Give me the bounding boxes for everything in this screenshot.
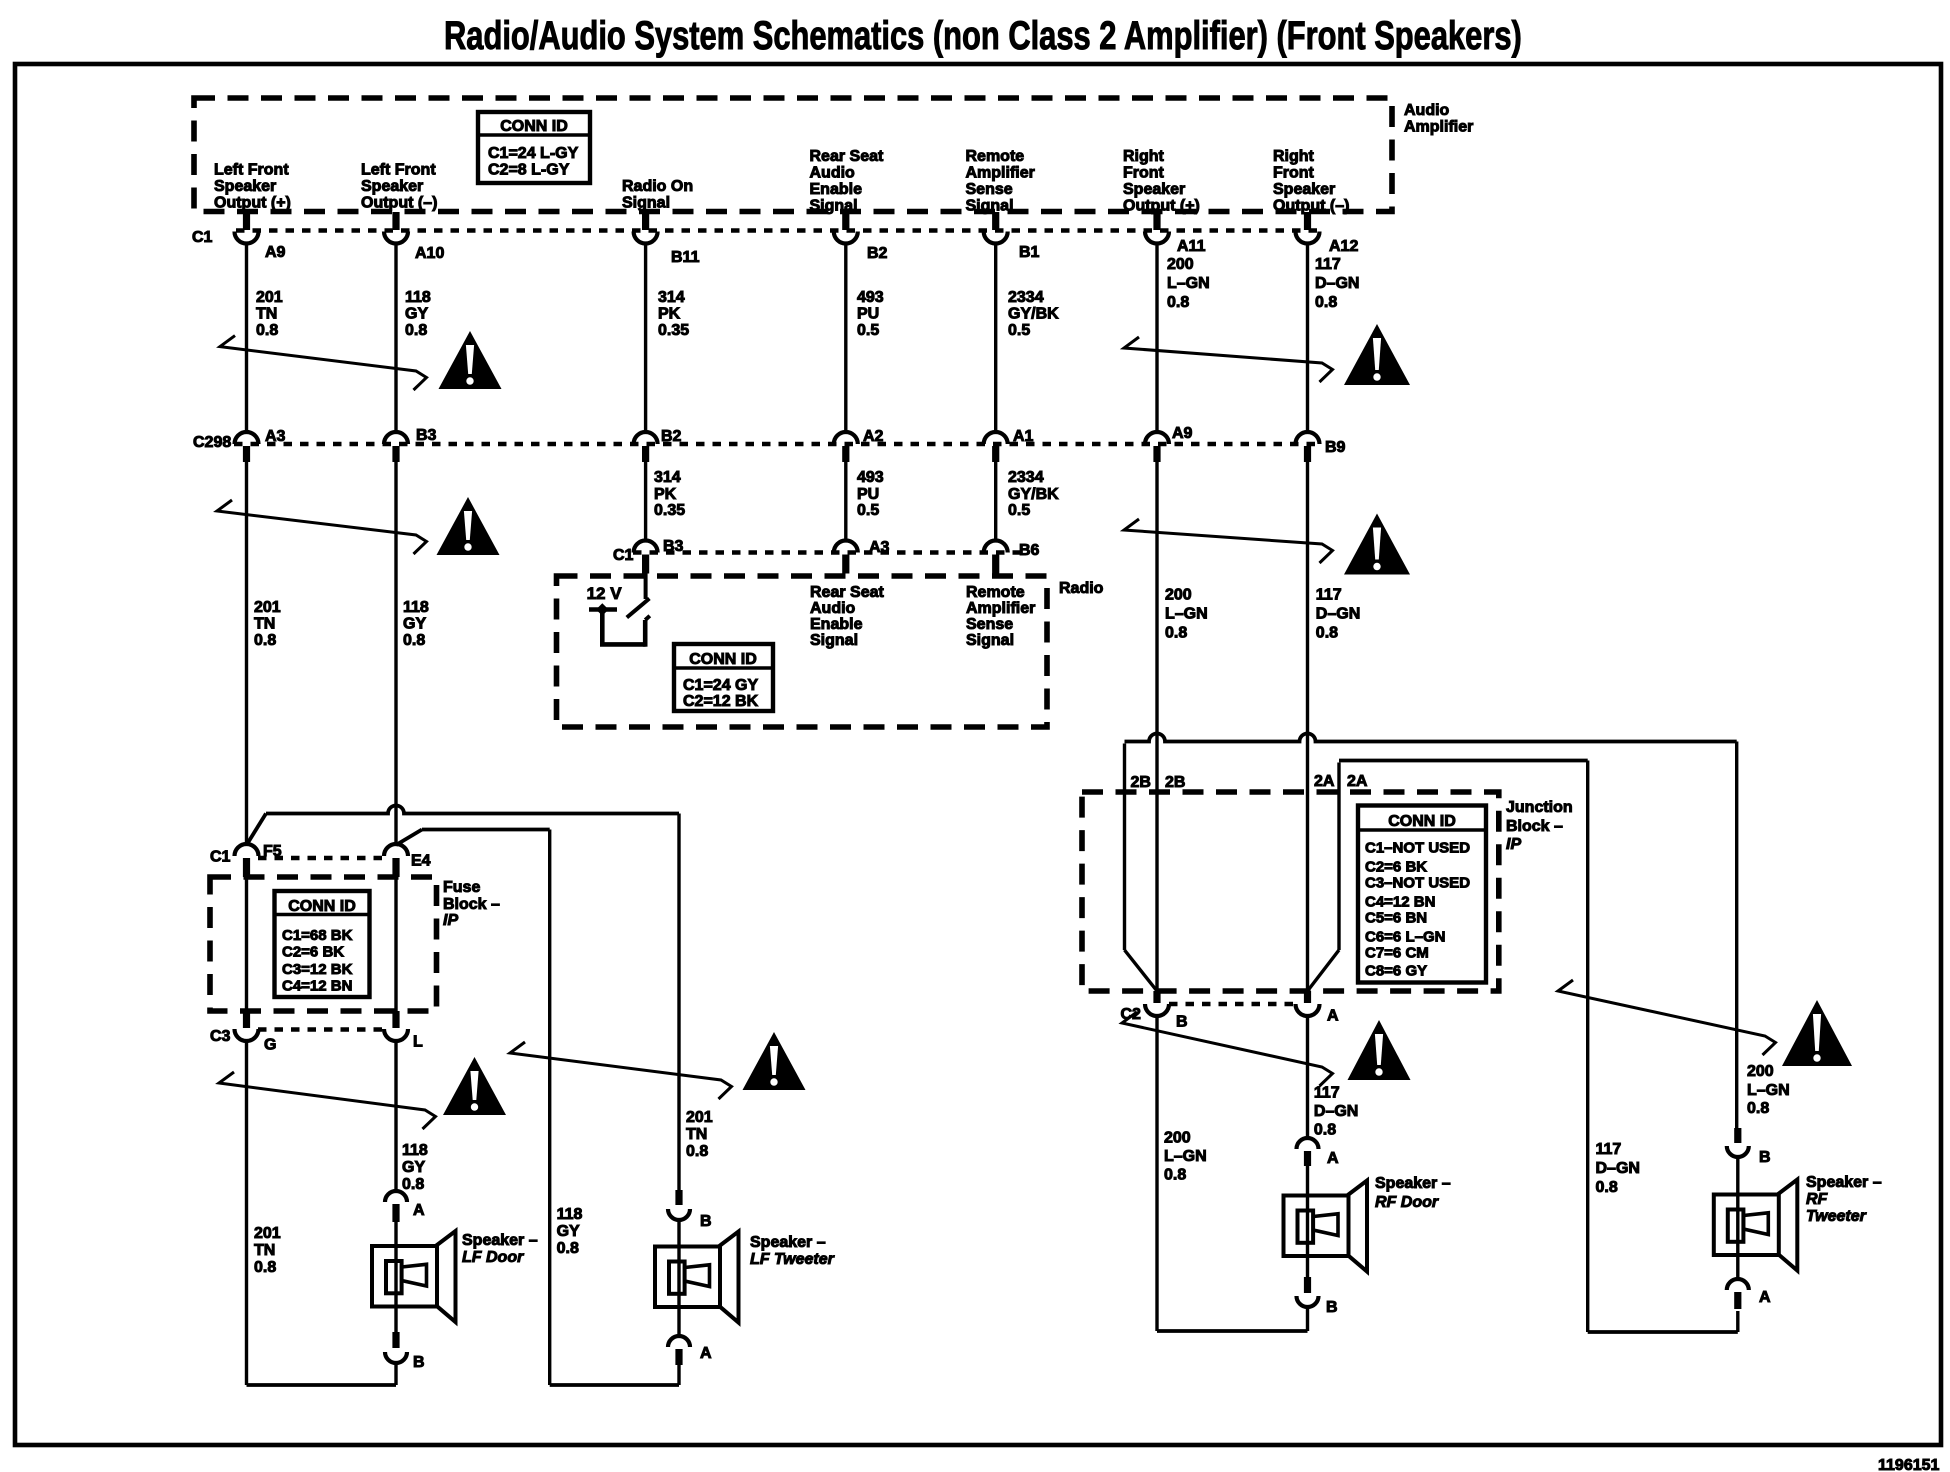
svg-text:0.35: 0.35 <box>654 502 685 519</box>
warning triangle note (far right) <box>1782 1000 1852 1066</box>
svg-text:Right: Right <box>1123 148 1165 165</box>
wire label 493 PU 0.5 (mid) <box>857 469 884 519</box>
speaker terminal B (RF tweeter) <box>1727 1128 1771 1166</box>
wire out of LF tweeter <box>677 1307 680 1336</box>
twisted-pair arrow (lower mid) <box>510 1042 732 1099</box>
svg-text:A1: A1 <box>1013 428 1034 445</box>
svg-text:Right: Right <box>1273 148 1315 165</box>
svg-text:2334: 2334 <box>1008 289 1044 306</box>
speaker terminal B (RF door) <box>1297 1277 1338 1316</box>
connector C298 pin A3 <box>235 428 286 462</box>
wire label 118 GY 0.8 (upper) <box>405 289 431 339</box>
svg-text:Audio: Audio <box>810 600 856 617</box>
speaker terminal A (LF tweeter) <box>668 1336 712 1365</box>
wire 200 L-GN segment A9-junction <box>1155 462 1158 991</box>
connector C298 label <box>193 434 231 451</box>
wire into RF door speaker <box>1306 1166 1309 1196</box>
svg-text:GY/BK: GY/BK <box>1008 486 1059 503</box>
fuse block CONN ID table <box>275 891 370 997</box>
svg-text:Audio: Audio <box>1404 102 1450 119</box>
junction pin label 2A (left) <box>1314 773 1335 790</box>
svg-text:CONN ID: CONN ID <box>689 651 757 668</box>
svg-text:C1=68 BK: C1=68 BK <box>282 927 353 944</box>
svg-text:C1: C1 <box>210 849 231 866</box>
svg-text:B2: B2 <box>661 428 682 445</box>
svg-text:Speaker –: Speaker – <box>1806 1174 1882 1191</box>
wire label 314 PK 0.35 (upper) <box>658 289 689 339</box>
junction connector pin B <box>1145 991 1188 1031</box>
wire LF door B to return <box>394 1363 397 1385</box>
svg-text:Amplifier: Amplifier <box>966 165 1035 182</box>
amp pin label Left Front Speaker Output (-) <box>361 162 437 212</box>
svg-text:TN: TN <box>254 1242 275 1259</box>
wire 200 L-GN segment B-RF door <box>1157 1016 1308 1331</box>
svg-text:0.8: 0.8 <box>254 632 276 649</box>
connector row C1 dotted tie line <box>236 228 1318 233</box>
speaker label LF Door <box>462 1232 538 1266</box>
warning triangle note (junction) <box>1348 1020 1411 1080</box>
twisted-pair arrow (lower left) <box>219 1072 436 1129</box>
svg-text:Block –: Block – <box>1506 818 1563 835</box>
twisted-pair arrow (left upper) <box>220 336 427 390</box>
svg-text:314: 314 <box>654 469 681 486</box>
junction connector pin A <box>1296 991 1340 1025</box>
svg-text:A: A <box>1327 1008 1339 1025</box>
svg-text:GY: GY <box>557 1223 580 1240</box>
svg-text:117: 117 <box>1315 256 1341 273</box>
svg-text:C5=6 BN: C5=6 BN <box>1365 910 1427 927</box>
svg-text:0.5: 0.5 <box>1008 502 1030 519</box>
svg-text:L–GN: L–GN <box>1164 1148 1207 1165</box>
svg-text:2B: 2B <box>1131 774 1151 791</box>
radio CONN ID table <box>674 644 773 711</box>
svg-text:C8=6 GY: C8=6 GY <box>1365 963 1427 980</box>
svg-text:A10: A10 <box>415 245 444 262</box>
svg-text:PU: PU <box>857 486 879 503</box>
svg-text:Audio: Audio <box>810 165 856 182</box>
svg-text:TN: TN <box>686 1126 707 1143</box>
wire label 117 D-GN 0.8 (mid) <box>1316 587 1360 642</box>
svg-text:IP: IP <box>443 912 458 929</box>
svg-text:B: B <box>1759 1149 1771 1166</box>
amp pin label Left Front Speaker Output (+) <box>214 162 291 212</box>
amp connector pin A11 <box>1145 212 1206 255</box>
wire label 200 L-GN 0.8 (upper) <box>1167 256 1210 311</box>
radio-on switch S1 <box>600 573 650 647</box>
svg-text:0.5: 0.5 <box>1008 322 1030 339</box>
svg-text:G: G <box>264 1037 276 1054</box>
speaker SPKR3 RF Door <box>1284 1181 1368 1272</box>
svg-text:LF Door: LF Door <box>462 1249 524 1266</box>
svg-text:0.8: 0.8 <box>1167 294 1189 311</box>
svg-text:200: 200 <box>1165 587 1192 604</box>
svg-text:C1: C1 <box>192 229 213 246</box>
junction block feed 2A branch <box>1308 761 1738 1333</box>
connector C298 pin B2 <box>634 428 682 462</box>
svg-text:Sense: Sense <box>966 616 1013 633</box>
svg-text:0.8: 0.8 <box>1747 1100 1769 1117</box>
warning triangle note (lower mid) <box>743 1032 806 1090</box>
wire label 493 PU 0.5 (upper) <box>857 289 884 339</box>
svg-text:Left Front: Left Front <box>361 162 436 179</box>
wire into LF door speaker <box>394 1222 397 1246</box>
connector C298 pin A2 <box>834 428 884 462</box>
radio connector row dotted tie line <box>633 550 1020 555</box>
speaker terminal A (RF tweeter) <box>1727 1279 1771 1309</box>
wire 118 GY segment L-LF door A <box>394 1041 397 1191</box>
speaker terminal A (LF door) <box>385 1191 425 1222</box>
wire out of LF door speaker <box>394 1307 397 1333</box>
warning triangle note (lower left) <box>443 1057 506 1115</box>
svg-text:Output (–): Output (–) <box>1273 198 1349 215</box>
wire RF door B to return <box>1306 1307 1309 1331</box>
connector row C3 dotted tie line <box>258 1027 383 1032</box>
svg-text:117: 117 <box>1316 587 1342 604</box>
speaker terminal B (LF tweeter) <box>668 1190 712 1230</box>
svg-text:CONN ID: CONN ID <box>1388 813 1456 830</box>
wire label 201 TN 0.8 (lower left) <box>254 1225 281 1276</box>
speaker label RF Tweeter <box>1806 1174 1882 1225</box>
svg-text:0.8: 0.8 <box>1316 625 1338 642</box>
wire label 118 GY 0.8 (LF tweeter) <box>557 1206 583 1257</box>
wire 314 PK segment B11-B2 <box>644 244 647 433</box>
svg-text:Tweeter: Tweeter <box>1806 1208 1867 1225</box>
svg-text:B: B <box>700 1213 712 1230</box>
svg-text:PK: PK <box>654 486 677 503</box>
radio signal label Rear Seat Audio Enable Signal <box>810 584 884 649</box>
wire 314 PK segment B2-B3 <box>644 462 647 542</box>
amp connector pin A12 <box>1296 212 1359 255</box>
audio amplifier name label <box>1404 102 1473 136</box>
connector C3 pin G <box>235 1011 277 1054</box>
svg-text:LF Tweeter: LF Tweeter <box>750 1251 835 1268</box>
wire 117 D-GN segment B9-junction <box>1306 462 1309 991</box>
connector C3 pin L <box>384 1011 423 1051</box>
svg-text:118: 118 <box>403 599 429 616</box>
svg-text:D–GN: D–GN <box>1315 275 1359 292</box>
amp pin label Right Front Speaker Output (+) <box>1123 148 1200 215</box>
twisted-pair arrow (far right) <box>1558 980 1776 1055</box>
svg-text:Signal: Signal <box>622 195 670 212</box>
svg-text:Junction: Junction <box>1506 799 1573 816</box>
wire label 118 GY 0.8 (lower left) <box>402 1142 428 1193</box>
svg-text:PU: PU <box>857 306 879 323</box>
svg-text:200: 200 <box>1747 1063 1774 1080</box>
svg-text:C3: C3 <box>210 1028 231 1045</box>
svg-text:0.35: 0.35 <box>658 322 689 339</box>
wire 2334 GY/BK segment A1-B6 <box>994 462 997 542</box>
svg-text:117: 117 <box>1596 1141 1622 1158</box>
fuse block wire stub F5 inside <box>245 877 248 1011</box>
speaker terminal B (LF door) <box>385 1332 425 1371</box>
svg-text:C4=12 BN: C4=12 BN <box>1365 894 1435 911</box>
svg-text:0.8: 0.8 <box>557 1240 579 1257</box>
radio signal label Remote Amplifier Sense Signal <box>966 584 1035 649</box>
radio connector pin B6 <box>984 541 1040 574</box>
svg-text:201: 201 <box>256 289 283 306</box>
wire 117 D-GN segment A-RF door A <box>1306 1016 1309 1138</box>
svg-text:Enable: Enable <box>810 181 863 198</box>
wire 201 TN segment G-LF door <box>247 1041 397 1385</box>
svg-text:B2: B2 <box>867 245 888 262</box>
fuse block name label <box>443 879 500 929</box>
svg-text:2334: 2334 <box>1008 469 1044 486</box>
svg-text:Output (+): Output (+) <box>1123 198 1200 215</box>
wire 118 GY segment B3-E4 <box>394 462 397 844</box>
svg-text:A: A <box>413 1202 425 1219</box>
svg-text:0.8: 0.8 <box>1596 1179 1618 1196</box>
svg-text:GY/BK: GY/BK <box>1008 306 1059 323</box>
svg-text:PK: PK <box>658 306 681 323</box>
speaker SPKR4 RF Tweeter <box>1714 1180 1798 1271</box>
junction block CONN ID table <box>1358 806 1486 983</box>
svg-text:0.8: 0.8 <box>256 322 278 339</box>
wire branch F5 to LF tweeter (201 TN) <box>247 806 680 1191</box>
audio amplifier U1 dashed outline <box>194 98 1392 212</box>
svg-text:A2: A2 <box>863 428 884 445</box>
wire 2334 GY/BK segment B1-A1 <box>994 244 997 433</box>
wire label 2334 GY/BK 0.5 (upper) <box>1008 289 1059 339</box>
svg-text:C3=12 BK: C3=12 BK <box>282 961 353 978</box>
svg-text:Block –: Block – <box>443 896 500 913</box>
wire 117 D-GN segment A12-B9 <box>1306 244 1309 433</box>
speaker terminal A (RF door) <box>1297 1138 1340 1167</box>
svg-text:C4=12 BN: C4=12 BN <box>282 978 352 995</box>
warning triangle note (left mid) <box>437 497 500 555</box>
svg-text:12 V: 12 V <box>587 584 623 603</box>
amp connector pin B1 <box>984 212 1040 261</box>
svg-text:1196151: 1196151 <box>1878 1457 1940 1472</box>
connector row C298 dotted tie line <box>234 442 1318 447</box>
radio name label <box>1059 580 1104 597</box>
amplifier CONN ID table <box>478 112 590 183</box>
svg-text:Front: Front <box>1273 165 1315 182</box>
title <box>444 13 1522 58</box>
fuse block connector C1 label <box>210 849 231 866</box>
svg-text:0.8: 0.8 <box>1164 1167 1186 1184</box>
svg-text:Output (+): Output (+) <box>214 195 291 212</box>
radio dashed outline <box>557 576 1048 727</box>
svg-text:B1: B1 <box>1019 244 1040 261</box>
svg-text:C298: C298 <box>193 434 231 451</box>
wire label 201 TN 0.8 (mid) <box>254 599 281 649</box>
svg-text:0.8: 0.8 <box>686 1143 708 1160</box>
speaker label RF Door <box>1375 1175 1451 1211</box>
svg-text:A12: A12 <box>1329 238 1358 255</box>
twisted-pair arrow (junction) <box>1122 1012 1333 1086</box>
svg-text:Amplifier: Amplifier <box>966 600 1035 617</box>
wire label 117 D-GN 0.8 (RF door) <box>1314 1085 1358 1139</box>
svg-text:201: 201 <box>254 1225 281 1242</box>
connector C3 label <box>210 1028 231 1045</box>
amp connector pin A10 <box>384 212 444 262</box>
wire 118 GY segment A10-B3 <box>394 244 397 433</box>
svg-text:Radio On: Radio On <box>622 178 693 195</box>
svg-text:B11: B11 <box>671 249 700 266</box>
svg-text:0.8: 0.8 <box>1314 1122 1336 1139</box>
junction connector C2 label <box>1121 1006 1142 1023</box>
amp pin label Remote Amplifier Sense Signal <box>966 148 1035 215</box>
svg-text:493: 493 <box>857 469 884 486</box>
svg-text:0.8: 0.8 <box>402 1176 424 1193</box>
svg-text:0.8: 0.8 <box>405 322 427 339</box>
svg-text:0.5: 0.5 <box>857 502 879 519</box>
svg-text:TN: TN <box>254 616 275 633</box>
svg-text:Output (–): Output (–) <box>361 195 437 212</box>
svg-text:IP: IP <box>1506 836 1521 853</box>
wire 201 TN segment A3-F5 <box>245 462 248 844</box>
svg-text:Left Front: Left Front <box>214 162 289 179</box>
svg-text:GY: GY <box>403 616 426 633</box>
svg-text:Radio/Audio System Schematics: Radio/Audio System Schematics (non Class… <box>444 13 1522 58</box>
svg-text:D–GN: D–GN <box>1596 1160 1640 1177</box>
svg-text:B3: B3 <box>416 427 437 444</box>
connector C298 pin A1 <box>984 428 1034 462</box>
svg-text:Front: Front <box>1123 165 1165 182</box>
svg-text:Rear Seat: Rear Seat <box>810 584 884 601</box>
wire label 200 L-GN 0.8 (RF door) <box>1164 1130 1207 1184</box>
wire 200 L-GN segment A11-A9 <box>1155 244 1158 433</box>
svg-text:201: 201 <box>686 1109 713 1126</box>
svg-text:Speaker –: Speaker – <box>1375 1175 1451 1192</box>
junction pin label 2A (right) <box>1347 773 1368 790</box>
svg-text:B9: B9 <box>1325 439 1346 456</box>
twisted-pair arrow (left mid) <box>217 500 427 554</box>
speaker label LF Tweeter <box>750 1234 835 1268</box>
svg-text:0.8: 0.8 <box>254 1259 276 1276</box>
amp pin label Right Front Speaker Output (-) <box>1273 148 1349 215</box>
wire into LF tweeter <box>677 1220 680 1247</box>
junction block name label <box>1506 799 1573 853</box>
svg-text:Speaker –: Speaker – <box>462 1232 538 1249</box>
svg-text:2A: 2A <box>1347 773 1368 790</box>
amp connector pin B11 <box>634 212 700 266</box>
wire label 117 D-GN 0.8 (RF tweeter) <box>1596 1141 1640 1196</box>
svg-text:Rear Seat: Rear Seat <box>810 148 884 165</box>
svg-text:CONN ID: CONN ID <box>288 898 356 915</box>
svg-text:Remote: Remote <box>966 584 1025 601</box>
svg-text:Speaker: Speaker <box>1273 181 1335 198</box>
svg-text:TN: TN <box>256 306 277 323</box>
twisted-pair arrow (right mid) <box>1124 519 1333 563</box>
svg-text:A9: A9 <box>265 244 286 261</box>
svg-text:Fuse: Fuse <box>443 879 480 896</box>
svg-text:C2=8 L-GY: C2=8 L-GY <box>488 162 570 179</box>
fuse block connector pin F5 <box>235 843 282 877</box>
amp connector pin B2 <box>834 212 888 262</box>
svg-text:C1: C1 <box>613 547 634 564</box>
svg-text:Signal: Signal <box>966 198 1014 215</box>
svg-text:C1–NOT USED: C1–NOT USED <box>1365 840 1470 857</box>
wire out of RF door speaker <box>1306 1256 1309 1277</box>
wire label 2334 GY/BK 0.5 (mid) <box>1008 469 1059 519</box>
svg-text:200: 200 <box>1167 256 1194 273</box>
svg-text:C2=6 BK: C2=6 BK <box>1365 859 1427 876</box>
svg-text:B3: B3 <box>663 538 684 555</box>
svg-text:B6: B6 <box>1019 542 1040 559</box>
wire branch E4 to LF tweeter return (118 GY) <box>396 830 679 1386</box>
radio connector C1 label <box>613 547 634 564</box>
svg-text:Radio: Radio <box>1059 580 1104 597</box>
fuse block connector row dotted tie line <box>258 856 386 861</box>
wire 201 TN segment A9-A3 <box>245 244 248 433</box>
svg-text:117: 117 <box>1314 1085 1340 1102</box>
wire label 200 L-GN 0.8 (mid) <box>1165 587 1208 642</box>
svg-text:C2=6 BK: C2=6 BK <box>282 944 344 961</box>
svg-text:B: B <box>1176 1014 1188 1031</box>
svg-text:L–GN: L–GN <box>1165 606 1208 623</box>
svg-text:118: 118 <box>557 1206 583 1223</box>
amp connector pin A9 <box>235 212 286 261</box>
svg-text:RF Door: RF Door <box>1375 1194 1439 1211</box>
svg-text:A11: A11 <box>1177 238 1206 255</box>
wire label 118 GY 0.8 (mid) <box>403 599 429 649</box>
svg-text:118: 118 <box>402 1142 428 1159</box>
warning triangle note (left upper) <box>439 331 502 389</box>
svg-text:0.8: 0.8 <box>1165 625 1187 642</box>
svg-text:Sense: Sense <box>966 181 1013 198</box>
connector C1 label <box>192 229 213 246</box>
radio 12V supply symbol <box>587 584 623 616</box>
amp pin label Rear Seat Audio Enable Signal <box>810 148 884 215</box>
junction pin label 2B (left) <box>1131 774 1151 791</box>
document number 1196151 <box>1878 1457 1940 1472</box>
svg-text:0.8: 0.8 <box>1315 294 1337 311</box>
svg-text:L–GN: L–GN <box>1167 275 1210 292</box>
wire 493 PU segment B2-A2 <box>844 244 847 433</box>
radio connector pin A3 <box>834 539 890 574</box>
fuse block connector pin E4 <box>384 844 431 877</box>
svg-text:Signal: Signal <box>810 198 858 215</box>
svg-text:Speaker –: Speaker – <box>750 1234 826 1251</box>
svg-text:2B: 2B <box>1165 774 1185 791</box>
svg-text:Signal: Signal <box>810 632 858 649</box>
svg-text:Speaker: Speaker <box>1123 181 1185 198</box>
svg-text:C1=24 L-GY: C1=24 L-GY <box>488 145 579 162</box>
svg-text:0.5: 0.5 <box>857 322 879 339</box>
wire label 200 L-GN 0.8 (RF tweeter) <box>1747 1063 1790 1117</box>
svg-text:L: L <box>413 1034 423 1051</box>
svg-text:B: B <box>1326 1299 1338 1316</box>
connector C298 pin B3 <box>384 427 437 462</box>
svg-text:GY: GY <box>402 1159 425 1176</box>
svg-text:A: A <box>1759 1289 1771 1306</box>
svg-text:C7=6 CM: C7=6 CM <box>1365 945 1429 962</box>
svg-text:200: 200 <box>1164 1130 1191 1147</box>
wire into RF tweeter <box>1736 1157 1739 1195</box>
wire label 201 TN 0.8 (LF tweeter) <box>686 1109 713 1160</box>
junction connector row dotted tie line <box>1169 1002 1295 1007</box>
fuse block IP dashed outline <box>210 877 437 1011</box>
svg-text:Speaker: Speaker <box>361 178 423 195</box>
wire label 314 PK 0.35 (mid) <box>654 469 685 519</box>
junction pin label 2B (right) <box>1165 774 1185 791</box>
svg-text:A3: A3 <box>869 539 890 556</box>
warning triangle note (right upper) <box>1344 324 1410 385</box>
wire out of RF tweeter <box>1736 1255 1739 1279</box>
junction block IP dashed outline <box>1082 792 1499 991</box>
connector C298 pin B9 <box>1296 432 1346 462</box>
speaker SPKR1 LF Door <box>372 1231 456 1322</box>
svg-text:118: 118 <box>405 289 431 306</box>
svg-text:2A: 2A <box>1314 773 1335 790</box>
svg-text:Enable: Enable <box>810 616 863 633</box>
warning triangle note (right mid) <box>1344 514 1410 575</box>
junction block feed 2B branch <box>1125 734 1737 1129</box>
svg-text:L–GN: L–GN <box>1747 1082 1790 1099</box>
svg-text:D–GN: D–GN <box>1316 606 1360 623</box>
svg-text:A: A <box>1327 1150 1339 1167</box>
